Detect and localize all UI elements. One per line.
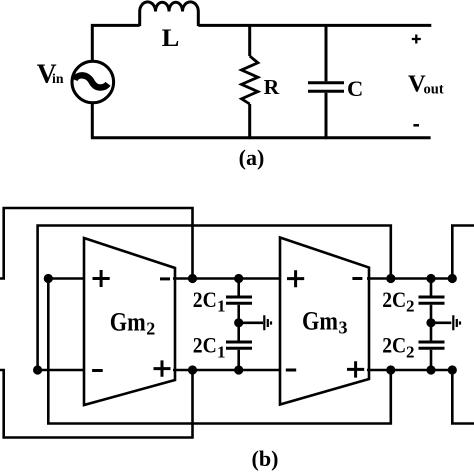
svg-text:1: 1 [217, 297, 226, 316]
svg-text:out: out [424, 82, 444, 98]
svg-text:C: C [347, 76, 363, 101]
svg-text:(a): (a) [239, 145, 265, 170]
svg-text:in: in [52, 71, 64, 86]
svg-text:2C: 2C [193, 333, 217, 358]
svg-text:2C: 2C [382, 333, 406, 358]
svg-text:R: R [264, 75, 280, 99]
svg-text:2: 2 [146, 319, 155, 339]
svg-text:Gm: Gm [110, 308, 146, 337]
svg-text:2C: 2C [382, 287, 406, 312]
svg-text:2: 2 [406, 342, 415, 361]
svg-text:2C: 2C [193, 287, 217, 312]
svg-text:Gm: Gm [302, 307, 338, 336]
svg-text:L: L [162, 25, 180, 52]
svg-text:2: 2 [406, 297, 415, 316]
svg-text:1: 1 [217, 342, 226, 361]
svg-text:(b): (b) [252, 446, 279, 471]
svg-text:3: 3 [339, 318, 348, 338]
